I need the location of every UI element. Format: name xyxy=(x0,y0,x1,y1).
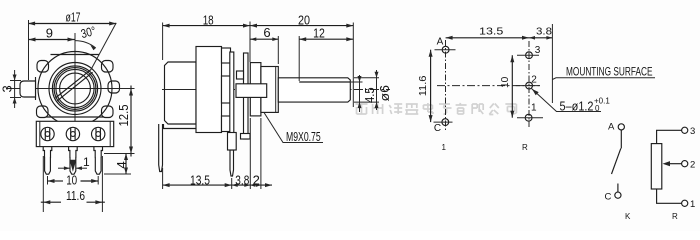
svg-text:12.5: 12.5 xyxy=(116,105,131,127)
FRONT VIEW xyxy=(0,10,135,213)
switch blade K xyxy=(612,148,621,174)
terminal 3 circle xyxy=(682,127,688,133)
11.6 dim line xyxy=(41,201,61,203)
3 dim extension top xyxy=(10,80,21,82)
svg-text:3: 3 xyxy=(690,126,695,137)
svg-text:ø6: ø6 xyxy=(377,85,392,102)
svg-text:M9X0.75: M9X0.75 xyxy=(286,129,321,144)
hole 3 xyxy=(526,52,533,59)
horizontal centerline dash-dot xyxy=(162,89,390,91)
svg-text:1: 1 xyxy=(531,103,537,114)
svg-text:2: 2 xyxy=(531,75,537,86)
svg-text:R: R xyxy=(672,212,678,221)
3.8 dim line top xyxy=(529,37,552,39)
body tab middle xyxy=(222,76,231,103)
svg-text:6: 6 xyxy=(263,25,270,40)
svg-text:3: 3 xyxy=(0,85,15,92)
shaft circle inner xyxy=(60,73,91,104)
phi6 extension bottom xyxy=(354,101,379,103)
extension pin1 center xyxy=(47,176,49,185)
rear bracket plate xyxy=(230,52,234,150)
wire to C xyxy=(617,184,619,193)
svg-text:1: 1 xyxy=(442,143,447,152)
center pin down arrow xyxy=(70,160,77,172)
pin 1 shoulder and pin xyxy=(43,147,52,175)
body tab top xyxy=(222,48,231,63)
pin extension at 231.7 xyxy=(231,178,233,189)
threaded bushing xyxy=(261,67,278,113)
svg-text:10: 10 xyxy=(66,172,77,187)
10 dim line xyxy=(511,55,513,117)
plate bent tab xyxy=(237,71,244,79)
cover seam line xyxy=(165,89,197,91)
pin 3 shoulder and pin xyxy=(94,147,103,175)
4.5 extension from flat xyxy=(351,81,363,83)
svg-text:MOUNTING SURFACE: MOUNTING SURFACE xyxy=(566,65,653,79)
slot line upper xyxy=(55,69,91,98)
main body block xyxy=(196,47,222,133)
notch lower-right xyxy=(102,106,114,118)
phi6 dim line xyxy=(376,70,378,110)
shaft circle outer xyxy=(52,66,97,111)
watermark company text (approximated strokes) xyxy=(356,103,517,115)
terminal 1 circle xyxy=(682,200,688,206)
svg-text:13.5: 13.5 xyxy=(479,26,503,38)
svg-text:3: 3 xyxy=(535,45,541,56)
notch upper-left xyxy=(37,61,49,73)
column centerline 3-2-1 xyxy=(528,41,530,127)
svg-text:12: 12 xyxy=(313,26,325,41)
3 dim extension bottom xyxy=(10,97,21,99)
pin shoulder block xyxy=(228,133,237,151)
pin width 1 dim arrows xyxy=(58,167,70,169)
extension outer right xyxy=(101,156,103,212)
svg-text:A: A xyxy=(608,122,615,133)
bracket inner wall left xyxy=(39,121,41,146)
plate foot xyxy=(241,134,251,140)
svg-text:13.5: 13.5 xyxy=(190,173,210,188)
top chord line xyxy=(51,54,100,56)
SIDE VIEW xyxy=(159,13,393,190)
mounting surface vertical line xyxy=(551,24,553,103)
pin 2 shoulder and pin xyxy=(69,147,78,175)
notch upper-right xyxy=(102,61,114,73)
shaft xyxy=(278,78,350,102)
bottom chord line xyxy=(46,116,104,118)
hole 1 xyxy=(525,114,532,121)
svg-text:A: A xyxy=(437,36,444,47)
wiper arrow to 2 xyxy=(668,163,682,165)
svg-text:R: R xyxy=(522,143,528,152)
arc arrowhead xyxy=(90,45,96,50)
left extension line xyxy=(28,20,30,80)
12.5 extension bottom xyxy=(104,153,135,155)
terminal rivet 2 xyxy=(66,127,79,140)
shaft flat line xyxy=(299,81,350,83)
front pot pin xyxy=(230,150,234,176)
3 dim line with outside arrows xyxy=(14,70,16,108)
12.5 dim line xyxy=(130,86,132,157)
underline leader xyxy=(552,78,655,80)
12.5 extension top xyxy=(113,88,135,90)
terminal 2 circle xyxy=(682,161,688,167)
20 dim line xyxy=(250,25,353,27)
bottom dim line xyxy=(163,184,272,186)
2 arrows xyxy=(250,183,255,187)
cover bottom lip xyxy=(164,124,201,129)
svg-text:C: C xyxy=(605,192,612,203)
svg-text:1: 1 xyxy=(83,155,90,169)
lock washer xyxy=(250,63,261,116)
extension outer left xyxy=(42,156,44,212)
13.5 left extension xyxy=(162,168,164,189)
SCHEMATIC xyxy=(605,122,696,222)
svg-text:1: 1 xyxy=(690,199,695,210)
svg-text:10: 10 xyxy=(500,76,511,88)
12 dim line xyxy=(299,38,353,40)
hole leader 5-phi1.2 xyxy=(532,89,602,112)
svg-text:0: 0 xyxy=(595,104,600,113)
terminal C circle xyxy=(615,192,621,198)
slot line lower xyxy=(57,72,93,101)
18 dim line xyxy=(163,25,250,27)
front mounting plate xyxy=(244,53,249,139)
9 dimension line xyxy=(29,39,75,41)
svg-text:4: 4 xyxy=(114,161,129,168)
13.5 dim line top xyxy=(446,37,529,39)
left body flat xyxy=(35,77,37,100)
svg-text:2: 2 xyxy=(253,173,260,188)
30 deg direction line extending to phi17 dim xyxy=(91,23,116,70)
svg-text:K: K xyxy=(625,212,631,221)
rear cover xyxy=(165,62,197,124)
12 dim extension left xyxy=(298,36,300,81)
4 dim extension bottom xyxy=(104,173,131,175)
notch lower-left xyxy=(37,106,49,118)
body tab bottom xyxy=(222,116,231,132)
18/20 dim extension left xyxy=(162,23,164,61)
6 dim line xyxy=(250,38,278,40)
3.8 arrows xyxy=(232,183,238,187)
terminal A circle xyxy=(618,124,624,130)
resistor body R xyxy=(651,144,662,189)
wire from A xyxy=(620,130,622,149)
wire bottom to 1 xyxy=(657,189,682,203)
svg-text:2: 2 xyxy=(690,160,695,171)
M9X0.75 leader xyxy=(264,113,323,143)
4.5 dim line xyxy=(359,75,361,112)
washer extension lines xyxy=(249,118,251,189)
shaft circle mid xyxy=(54,68,96,110)
phi17 dimension line xyxy=(28,23,116,25)
shaft circle mid2 xyxy=(56,69,94,107)
horizontal centerline xyxy=(437,85,540,87)
bracket body xyxy=(36,121,113,146)
bushing chamfer line xyxy=(275,67,277,113)
horizontal centerline xyxy=(6,88,134,90)
18/20 junction extension xyxy=(249,22,251,63)
hub white box xyxy=(236,84,267,98)
vertical centerline xyxy=(74,33,76,127)
svg-text:18: 18 xyxy=(203,13,214,28)
svg-text:9: 9 xyxy=(46,26,53,41)
hole C xyxy=(442,119,449,126)
svg-text:11.6: 11.6 xyxy=(66,188,85,203)
column centerline A-C xyxy=(445,40,447,131)
11.6 dim line xyxy=(430,50,432,122)
rear switch pin xyxy=(159,124,163,172)
svg-text:3.8: 3.8 xyxy=(536,26,552,38)
svg-text:ø17: ø17 xyxy=(66,10,81,25)
knurled ring circle xyxy=(49,63,101,115)
4 dim line xyxy=(125,154,127,175)
leader arrowhead at hole 2 xyxy=(532,89,539,95)
30 deg arc xyxy=(75,41,96,48)
svg-text:20: 20 xyxy=(298,13,310,28)
hole 2 xyxy=(526,82,533,89)
hole A xyxy=(442,46,449,53)
phi6 extension top xyxy=(354,77,379,79)
svg-text:5–ø1.2: 5–ø1.2 xyxy=(560,100,594,114)
shaft end extension xyxy=(352,23,354,108)
MOUNTING LAYOUT xyxy=(418,24,655,152)
right side tab xyxy=(108,81,120,93)
extension pin3 center xyxy=(97,176,99,185)
10 dim line xyxy=(48,180,64,182)
terminal rivet 1 xyxy=(41,127,54,140)
terminal rivet 3 xyxy=(92,127,105,140)
svg-text:11.6: 11.6 xyxy=(418,75,429,96)
svg-text:3.8: 3.8 xyxy=(235,173,249,188)
bracket inner wall right xyxy=(109,121,111,146)
wire top to 3 xyxy=(657,130,682,143)
body outer circle xyxy=(38,52,112,126)
6 dim extension right xyxy=(277,36,279,64)
svg-text:4.5: 4.5 xyxy=(362,87,377,103)
left anti-rotation lug xyxy=(20,81,36,97)
svg-text:C: C xyxy=(434,123,441,134)
